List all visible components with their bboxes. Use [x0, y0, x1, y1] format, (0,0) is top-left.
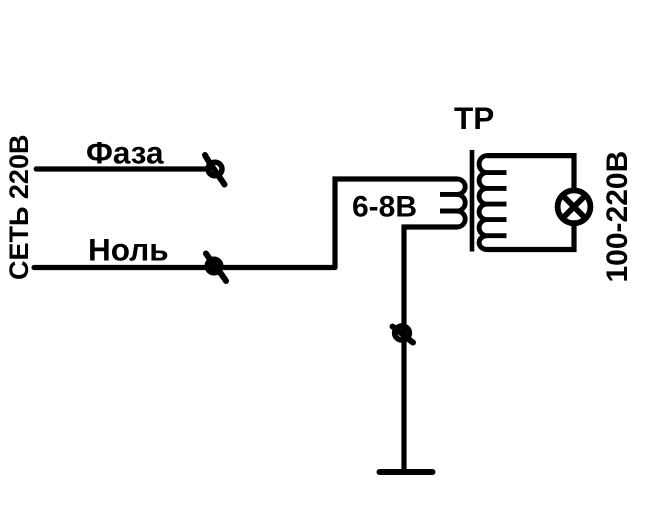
ground: [380, 469, 433, 475]
wire Фаза: [36, 166, 205, 171]
wire primary bottom to ground: [404, 227, 457, 470]
wire lamp to secondary bottom: [487, 225, 574, 250]
connector X3 twist on ground wire: [393, 326, 414, 343]
connector X2 twist on Ноль: [206, 254, 226, 282]
transformer T1 secondary winding: [479, 156, 506, 250]
svg-text:Ноль: Ноль: [88, 232, 169, 268]
lamp HL1: [558, 190, 591, 223]
wire Ноль to primary top: [335, 179, 457, 268]
wire Ноль: [34, 265, 335, 270]
svg-text:6-8В: 6-8В: [352, 191, 417, 224]
svg-text:Фаза: Фаза: [86, 135, 164, 171]
svg-text:100-220В: 100-220В: [601, 151, 634, 283]
transformer T1 primary winding: [440, 179, 465, 227]
transformer T1 core: [470, 150, 475, 252]
svg-text:СЕТЬ 220В: СЕТЬ 220В: [4, 135, 34, 280]
wire secondary top to lamp: [487, 156, 574, 190]
connector X1 twist on Фаза: [205, 155, 225, 185]
svg-text:ТР: ТР: [454, 100, 494, 136]
